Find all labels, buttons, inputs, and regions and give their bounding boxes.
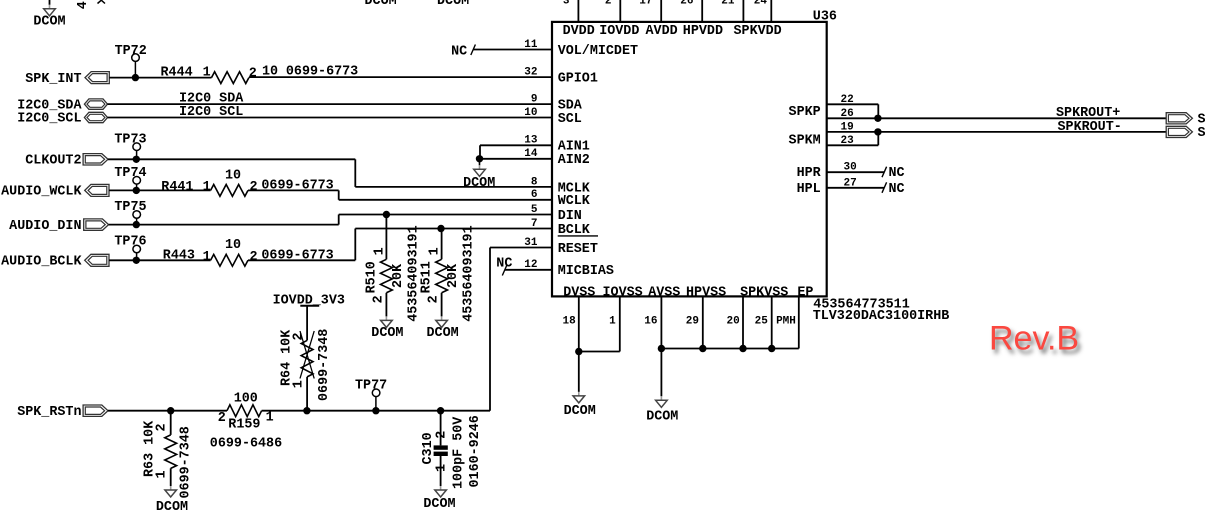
ground DCOM at C310 xyxy=(423,486,455,512)
IC reference U36 xyxy=(813,9,837,24)
svg-text:2: 2 xyxy=(218,411,226,426)
wire top power pin stub 2 xyxy=(619,0,621,22)
pin label 1 of R443 xyxy=(203,250,211,265)
wire DIN junction to R510 xyxy=(385,215,387,260)
pin number 31 xyxy=(524,237,538,249)
ground DCOM at AIN2 xyxy=(463,159,495,191)
junction TP76/AUDIO_BCLK xyxy=(133,257,140,264)
svg-text:10: 10 xyxy=(225,238,241,253)
wire R441 to WCLK xyxy=(248,190,552,199)
wire DVSS pin 18 stub xyxy=(578,296,580,351)
net label DCOM remnant 2 (cut off) xyxy=(437,0,469,9)
pin name GPIO1 xyxy=(558,72,598,87)
ground DCOM at AVSS xyxy=(646,349,678,425)
pin number 32 xyxy=(524,67,537,79)
svg-text:20: 20 xyxy=(726,316,739,328)
no-connect NC at MICBIAS xyxy=(496,256,552,275)
label C310 xyxy=(421,432,436,464)
svg-text:18: 18 xyxy=(562,316,576,328)
svg-text:HPVSS: HPVSS xyxy=(686,285,726,300)
pin name MICBIAS xyxy=(558,264,614,279)
svg-text:NC: NC xyxy=(889,166,905,181)
svg-text:0699-7348: 0699-7348 xyxy=(317,329,332,401)
svg-text:VOL/MICDET: VOL/MICDET xyxy=(558,44,638,59)
svg-text:SCL: SCL xyxy=(558,112,582,127)
resistor R443 xyxy=(211,254,248,266)
junction HPVSS xyxy=(699,345,706,352)
net label AUDIO_BCLK xyxy=(1,255,82,270)
junction TP77 xyxy=(372,407,379,414)
svg-text:R63 10K: R63 10K xyxy=(143,420,158,477)
wire top power pin stub 3 xyxy=(660,0,662,22)
junction SPKVSS 20 xyxy=(739,345,746,352)
svg-text:100: 100 xyxy=(234,392,258,407)
pin number 17 (cut) xyxy=(639,0,652,7)
pin number 8 xyxy=(531,176,538,188)
svg-text:TP77: TP77 xyxy=(355,379,387,394)
junction TP75/AUDIO_DIN xyxy=(133,221,140,228)
net name SPKROUT- xyxy=(1058,120,1122,135)
svg-text:DCOM: DCOM xyxy=(423,497,455,512)
wire SPKVSS pin 20 stub xyxy=(742,296,744,348)
svg-text:DIN: DIN xyxy=(558,209,582,224)
svg-text:DCOM: DCOM xyxy=(371,326,403,341)
wire AUDIO_WCLK to R441 xyxy=(109,189,211,191)
svg-text:100pF 50V: 100pF 50V xyxy=(452,416,467,489)
ground DCOM at DVSS xyxy=(564,352,596,419)
test point TP76 xyxy=(114,235,146,261)
wire AIN2 stub xyxy=(480,158,552,160)
port AUDIO_WCLK xyxy=(85,184,109,196)
svg-text:2: 2 xyxy=(434,431,449,439)
wire HPVSS pin 29 stub xyxy=(702,296,704,348)
pin name WCLK xyxy=(558,194,591,209)
value 100 of R159 xyxy=(234,392,258,407)
pin name AIN1 xyxy=(558,140,590,155)
svg-text:21: 21 xyxy=(721,0,735,7)
svg-text:1: 1 xyxy=(155,470,170,478)
junction SPKM xyxy=(874,128,881,135)
svg-text:Rev.B: Rev.B xyxy=(989,320,1079,358)
pin label 2 of R63 xyxy=(155,423,170,431)
junction TP73/CLKOUT2 xyxy=(133,156,140,163)
wire top power pin stub 6 xyxy=(770,0,772,22)
port SPK_RSTn xyxy=(83,405,108,416)
resistor R441 xyxy=(211,185,248,197)
pin number 26 xyxy=(841,108,854,120)
svg-text:1: 1 xyxy=(203,66,211,81)
pin name SPKM xyxy=(789,134,821,149)
svg-text:1: 1 xyxy=(428,247,443,255)
wire RESET to reset network xyxy=(490,248,552,411)
svg-text:SPKVDD: SPKVDD xyxy=(734,24,782,39)
resistor R511 xyxy=(436,259,448,292)
net label I2C0_SDA xyxy=(17,98,82,113)
svg-text:I2C0 SCL: I2C0 SCL xyxy=(179,105,243,120)
svg-text:WCLK: WCLK xyxy=(558,194,591,209)
pin name MCLK xyxy=(558,181,591,196)
wire R510 to ground xyxy=(385,293,387,317)
label R511 xyxy=(420,261,435,293)
svg-text:1: 1 xyxy=(266,410,274,425)
wire EP stub xyxy=(661,296,798,348)
value 10 of R443 xyxy=(225,238,241,253)
wire top power pin stub 4 xyxy=(701,0,703,22)
svg-text:DCOM: DCOM xyxy=(33,15,65,30)
wire AVSS pin 16 stub xyxy=(660,296,662,348)
wire SPKP pin 22 stub xyxy=(827,104,878,118)
svg-text:26: 26 xyxy=(680,0,693,7)
svg-text:HPVDD: HPVDD xyxy=(683,24,723,39)
port I2C0_SDA xyxy=(84,99,107,109)
value 100pF 50V of C310 xyxy=(452,416,467,489)
pin name BCLK xyxy=(558,223,591,238)
svg-text:TP72: TP72 xyxy=(115,44,147,59)
no-connect NC at HPL xyxy=(827,182,905,197)
pin number 9 xyxy=(531,94,538,106)
svg-text:DCOM: DCOM xyxy=(427,326,459,341)
svg-text:AUDIO_WCLK: AUDIO_WCLK xyxy=(1,185,82,200)
junction TP72/SPK_INT xyxy=(132,74,139,81)
no-connect NC at VOL/MICDET xyxy=(451,44,552,59)
part label 0699-7348 of R63 xyxy=(179,426,194,498)
wire R443 to BCLK xyxy=(248,229,552,261)
wire CLKOUT2 to MCLK xyxy=(108,159,552,187)
part label 0699-7348 of R64 xyxy=(317,329,332,401)
svg-text:DCOM: DCOM xyxy=(365,0,397,9)
junction SPKP xyxy=(874,115,881,122)
svg-text:20K: 20K xyxy=(446,263,461,288)
svg-text:R441: R441 xyxy=(161,180,193,195)
svg-text:RESET: RESET xyxy=(558,242,598,257)
ground DCOM at R63 xyxy=(156,486,188,515)
wire C310 top xyxy=(440,411,442,446)
pin label 2 of C310 xyxy=(434,431,449,439)
wire R64 to node xyxy=(306,377,308,411)
svg-text:1: 1 xyxy=(373,247,388,255)
pin number 27 xyxy=(844,177,857,189)
no-connect NC at HPR xyxy=(827,166,905,181)
svg-text:AUDIO_BCLK: AUDIO_BCLK xyxy=(1,255,82,270)
net name I2C0 SCL xyxy=(179,105,243,120)
svg-text:20K: 20K xyxy=(391,263,406,288)
svg-text:NC: NC xyxy=(451,44,467,59)
pin number 24 (cut) xyxy=(754,0,768,7)
junction C310 xyxy=(437,407,444,414)
svg-text:3: 3 xyxy=(563,0,570,7)
svg-text:SPKROUT+: SPKROUT+ xyxy=(1056,106,1120,121)
pin name SDA xyxy=(558,99,583,114)
label R444 xyxy=(161,66,193,81)
svg-text:SPK_RSTn: SPK_RSTn xyxy=(17,405,81,420)
svg-text:AVDD: AVDD xyxy=(646,24,678,39)
pin number 3 (cut) xyxy=(563,0,570,7)
pin number 26 (cut) xyxy=(680,0,693,7)
pin number 12 xyxy=(524,259,537,271)
svg-text:TP76: TP76 xyxy=(114,235,146,250)
revision stamp Rev.B xyxy=(989,320,1079,358)
wire AUDIO_BCLK to R443 xyxy=(109,259,211,261)
port I2C0_SCL xyxy=(84,112,107,122)
pin label 1 of R159 xyxy=(266,410,274,425)
net label SPK_RSTn xyxy=(17,405,81,420)
svg-text:DCOM: DCOM xyxy=(564,404,596,419)
wire SPKM pin 23 stub xyxy=(827,132,878,145)
pin name VOL/MICDET xyxy=(558,44,638,59)
svg-text:2: 2 xyxy=(372,295,387,303)
pin name SCL xyxy=(558,112,582,127)
svg-text:R443: R443 xyxy=(163,249,195,264)
port AUDIO_BCLK xyxy=(85,254,109,266)
pin name HPL xyxy=(797,182,821,197)
pin number 30 xyxy=(844,162,857,174)
svg-text:SPKP: SPKP xyxy=(789,105,821,120)
svg-text:29: 29 xyxy=(686,316,699,328)
pin name DVDD xyxy=(563,24,595,39)
resistor R510 xyxy=(381,259,393,292)
net label I2C0_SCL xyxy=(17,112,81,127)
svg-text:1: 1 xyxy=(203,180,211,195)
pin label 1 of R510 xyxy=(373,247,388,255)
svg-text:R444: R444 xyxy=(161,66,193,81)
svg-text:CLKOUT2: CLKOUT2 xyxy=(25,154,81,169)
junction R64 xyxy=(303,407,310,414)
part name TLV320DAC3100IRHB xyxy=(813,309,950,324)
svg-text:AIN2: AIN2 xyxy=(558,153,590,168)
test point TP75 xyxy=(114,200,146,224)
wire SPKM pin 19 stub xyxy=(827,131,878,133)
port CLKOUT2 xyxy=(83,154,108,165)
ground DCOM at R511 xyxy=(427,316,459,340)
resistor R63 xyxy=(165,435,177,468)
test point TP74 xyxy=(114,166,146,190)
net label CLKOUT2 xyxy=(25,154,81,169)
svg-text:DCOM: DCOM xyxy=(437,0,469,9)
wire top power pin stub 1 xyxy=(577,0,579,22)
resistor R64 (not installed) xyxy=(301,340,313,376)
pin name AIN2 xyxy=(558,153,590,168)
pin label 2 of R159 xyxy=(218,411,226,426)
label R443 xyxy=(163,249,195,264)
wire BCLK junction to R511 xyxy=(441,229,443,260)
pin number 6 xyxy=(531,189,538,201)
pin label 2 of R441 xyxy=(250,180,258,195)
junction AVSS xyxy=(658,345,665,352)
value 20K of R510 xyxy=(391,263,406,288)
pin number 11 xyxy=(524,39,538,51)
svg-text:AVSS: AVSS xyxy=(648,285,680,300)
pin name RESET xyxy=(558,242,598,257)
wire I2C0_SDA to SDA pin xyxy=(108,103,553,105)
pin name SPKVDD xyxy=(734,24,782,39)
part label 0160-9246 of C310 xyxy=(468,415,483,487)
wire R63 to ground xyxy=(170,468,172,486)
svg-text:SPKROUT-: SPKROUT- xyxy=(1058,120,1122,135)
svg-text:2: 2 xyxy=(250,180,258,195)
svg-text:TP75: TP75 xyxy=(114,200,146,215)
part label 0699-6773 of R444 xyxy=(286,65,358,80)
pin number 2 (cut) xyxy=(605,0,612,7)
pin label 2 of R64 xyxy=(292,332,307,340)
part label 0699-6773 of R441 xyxy=(261,178,333,193)
wire SPK_INT to R444 xyxy=(109,77,211,79)
pin number 22 xyxy=(841,94,854,106)
net label DCOM remnant (cut off) xyxy=(365,0,397,9)
junction AIN1/AIN2 xyxy=(476,155,483,162)
pin number 14 xyxy=(524,148,538,160)
port SPK_INT xyxy=(85,72,109,84)
junction BCLK/R511 xyxy=(437,225,444,232)
wire I2C0_SCL to SCL pin xyxy=(108,117,553,119)
pin number 29 xyxy=(686,316,699,328)
label R159 xyxy=(228,418,260,433)
wire IOVDD_3V3 to R64 xyxy=(306,306,308,341)
svg-text:24: 24 xyxy=(754,0,768,7)
svg-text:17: 17 xyxy=(639,0,652,7)
pin number 23 xyxy=(841,135,855,147)
svg-text:DCOM: DCOM xyxy=(646,410,678,425)
svg-text:1: 1 xyxy=(292,380,307,388)
test point TP73 xyxy=(114,133,146,160)
pin number 19 xyxy=(841,122,854,134)
pin label 1 of R511 xyxy=(428,247,443,255)
wire AIN1 stub xyxy=(480,145,552,159)
part label 0699-6486 of R159 xyxy=(210,436,282,451)
svg-text:453564093191: 453564093191 xyxy=(462,225,477,321)
net label AUDIO_DIN xyxy=(9,219,81,234)
wire R63 top xyxy=(170,411,172,435)
junction R63 xyxy=(167,407,174,414)
capacitor C310 xyxy=(434,445,448,456)
svg-text:0699-7348: 0699-7348 xyxy=(179,426,194,498)
port AUDIO_DIN xyxy=(84,219,109,230)
wire SPKVSS pin 25 stub xyxy=(771,296,773,348)
pin name DIN xyxy=(558,209,582,224)
pin label 2 of R443 xyxy=(250,250,258,265)
pin number 20 xyxy=(726,316,739,328)
pin number 1 xyxy=(609,316,616,328)
test point TP77 xyxy=(355,379,387,411)
test point TP72 xyxy=(115,44,147,78)
svg-text:1: 1 xyxy=(609,316,616,328)
pin name HPR xyxy=(797,166,822,181)
svg-text:0699-6486: 0699-6486 xyxy=(210,436,282,451)
part label 453564093191 of R510 xyxy=(407,225,422,321)
pin label 1 of C310 xyxy=(434,464,449,472)
svg-text:HPR: HPR xyxy=(797,166,822,181)
wire SPK_RSTn to R159 xyxy=(108,410,227,412)
svg-text:10: 10 xyxy=(225,169,241,184)
svg-text:IOVDD: IOVDD xyxy=(599,24,639,39)
svg-text:PMH: PMH xyxy=(776,316,796,328)
pin name IOVSS xyxy=(603,285,643,300)
wire R511 to ground xyxy=(441,293,443,317)
wire AUDIO_DIN to DIN xyxy=(109,215,552,225)
pin name DVSS xyxy=(563,285,595,300)
svg-text:SPK_INT: SPK_INT xyxy=(25,72,81,87)
pin label 1 of R63 xyxy=(155,470,170,478)
svg-text:25: 25 xyxy=(755,316,769,328)
svg-text:DCOM: DCOM xyxy=(156,500,188,515)
net name SPKROUT+ xyxy=(1056,106,1120,121)
resistor R444 xyxy=(212,72,249,84)
wire SPKROUT- net xyxy=(878,131,1167,133)
RESET overbar xyxy=(558,235,598,237)
svg-text:2: 2 xyxy=(250,250,258,265)
value 10 of R441 xyxy=(225,169,241,184)
wire SPKP pin 26 stub xyxy=(827,117,878,119)
junction SPKVSS 25 xyxy=(768,345,775,352)
pin name AVSS xyxy=(648,285,680,300)
pin number PMH xyxy=(776,316,796,328)
label R63 10K xyxy=(143,420,158,477)
part number 453564773511 xyxy=(813,297,909,312)
pin number 5 xyxy=(531,204,538,216)
junction DVSS bus xyxy=(575,348,582,355)
junction TP74/AUDIO_WCLK xyxy=(133,187,140,194)
svg-text:TP73: TP73 xyxy=(114,133,146,148)
svg-text:16: 16 xyxy=(644,316,657,328)
port SPKROUT+ (cut) xyxy=(1166,113,1205,128)
wire R159 to C310 node xyxy=(262,410,490,412)
rotated pin label 4 (cut off) xyxy=(76,1,91,9)
wire R444 to GPIO1 xyxy=(249,76,552,78)
svg-text:TP74: TP74 xyxy=(114,166,146,181)
svg-text:SPKM: SPKM xyxy=(789,134,821,149)
pin name IOVDD xyxy=(599,24,639,39)
pin label 1 of R441 xyxy=(203,180,211,195)
wire IOVSS pin 1 stub xyxy=(579,296,620,351)
pin number 7 xyxy=(531,218,538,230)
svg-text:1: 1 xyxy=(434,464,449,472)
svg-text:2: 2 xyxy=(427,295,442,303)
power rail IOVDD_3V3 xyxy=(273,294,345,309)
pin number 21 (cut) xyxy=(721,0,735,7)
svg-text:EP: EP xyxy=(797,285,813,300)
wire top power pin stub 5 xyxy=(742,0,744,22)
pin number 16 xyxy=(644,316,657,328)
net label AUDIO_WCLK xyxy=(1,185,82,200)
svg-text:R510: R510 xyxy=(365,261,380,293)
svg-text:DCOM: DCOM xyxy=(463,176,495,191)
svg-text:R511: R511 xyxy=(420,261,435,293)
svg-text:1: 1 xyxy=(203,250,211,265)
no-install X over R64 xyxy=(300,331,314,379)
svg-text:S: S xyxy=(1198,126,1205,141)
svg-text:R64 10K: R64 10K xyxy=(280,329,295,386)
svg-text:0160-9246: 0160-9246 xyxy=(468,415,483,487)
resistor remnant (cut off top) xyxy=(98,0,106,3)
pin number 10 xyxy=(524,107,537,119)
pin label 2 of R510 xyxy=(372,295,387,303)
svg-text:C310: C310 xyxy=(421,432,436,464)
IC U36 TLV320DAC3100 body xyxy=(552,22,827,297)
port SPKROUT- (cut) xyxy=(1166,126,1205,141)
svg-text:I2C0_SCL: I2C0_SCL xyxy=(17,112,81,127)
value 10 of R444 xyxy=(262,64,278,79)
svg-text:HPL: HPL xyxy=(797,182,821,197)
net label SPK_INT xyxy=(25,72,81,87)
svg-text:DVDD: DVDD xyxy=(563,24,595,39)
ground DCOM at R510 xyxy=(371,316,403,340)
svg-text:R159: R159 xyxy=(228,418,260,433)
part label 453564093191 of R511 xyxy=(462,225,477,321)
pin name AVDD xyxy=(646,24,678,39)
ground DCOM (top left, cut off) xyxy=(33,0,65,30)
label R510 xyxy=(365,261,380,293)
value 20K of R511 xyxy=(446,263,461,288)
svg-text:4: 4 xyxy=(76,1,91,9)
